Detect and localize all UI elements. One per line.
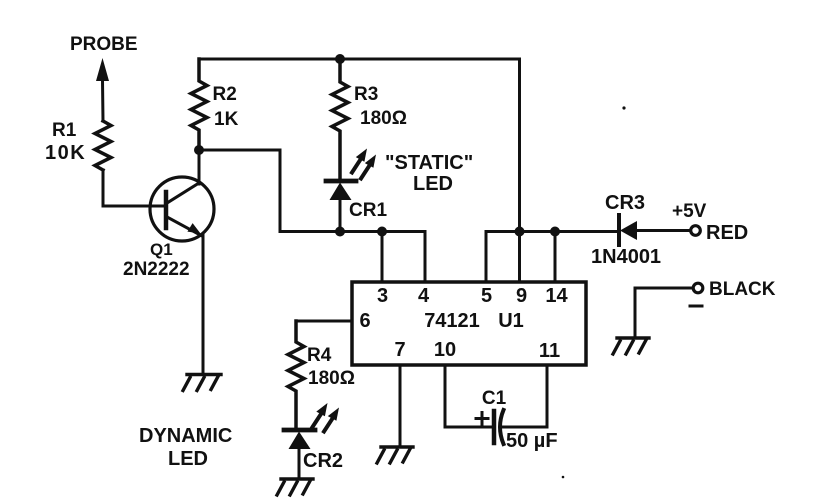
svg-text:R2: R2 — [213, 84, 237, 105]
ground (pin 7) — [377, 447, 413, 463]
svg-text:LED: LED — [168, 448, 208, 470]
diode CR3 — [619, 215, 689, 245]
svg-text:PROBE: PROBE — [70, 34, 138, 55]
svg-text:10: 10 — [434, 339, 456, 361]
svg-text:1K: 1K — [214, 109, 239, 130]
scan speck 1 — [622, 106, 625, 109]
node pin 3 junction — [377, 227, 387, 237]
svg-text:10K: 10K — [45, 142, 86, 164]
terminal RED (+5V) — [691, 226, 701, 236]
svg-text:7: 7 — [394, 339, 405, 361]
svg-text:R3: R3 — [354, 84, 378, 105]
svg-text:RED: RED — [706, 222, 748, 244]
resistor R3 — [332, 59, 348, 181]
wire pin 3 riser — [381, 232, 384, 283]
svg-text:LED: LED — [413, 173, 453, 195]
node R2/collector junction — [194, 145, 204, 155]
wire pin 5 riser — [485, 232, 488, 283]
svg-text:50 µF: 50 µF — [506, 430, 558, 452]
LED CR1 — [326, 181, 356, 232]
CR1 light emission arrows — [352, 149, 376, 179]
scan speck 2 — [562, 476, 565, 479]
svg-text:R4: R4 — [307, 345, 332, 366]
svg-text:+5V: +5V — [672, 201, 707, 222]
wire R1 to Q1 base — [103, 170, 166, 206]
ground (Q1 emitter) — [183, 375, 221, 391]
svg-text:1N4001: 1N4001 — [591, 246, 661, 268]
wire +V top rail — [199, 58, 519, 61]
svg-text:3: 3 — [377, 285, 388, 307]
resistor R4 — [288, 321, 304, 430]
svg-text:"STATIC": "STATIC" — [385, 152, 473, 174]
svg-text:BLACK: BLACK — [709, 279, 776, 300]
svg-text:CR2: CR2 — [303, 450, 343, 472]
op IC U1 74121 box — [352, 282, 586, 365]
ground (CR2) — [277, 479, 313, 495]
transistor Q1 — [150, 177, 214, 241]
wire Q1 emitter to ground — [202, 234, 205, 373]
wire pin 6 stub — [296, 320, 352, 323]
minus sign under BLACK — [690, 305, 702, 308]
node pin 14 junction — [550, 227, 560, 237]
wire Q1 collector — [198, 150, 201, 184]
svg-text:6: 6 — [359, 310, 370, 332]
node CR1 bottom junction — [335, 227, 345, 237]
resistor R1 — [95, 121, 111, 170]
node R3 top junction — [335, 54, 345, 64]
resistor R2 — [191, 59, 207, 150]
LED CR2 — [284, 430, 315, 478]
svg-text:5: 5 — [481, 285, 492, 307]
svg-text:2N2222: 2N2222 — [123, 259, 190, 280]
wire pin 10 to C1 — [445, 365, 491, 427]
wire +5V rail pins 5,9,14 to CR3 — [486, 230, 618, 233]
svg-text:C1: C1 — [482, 388, 507, 409]
svg-text:4: 4 — [418, 285, 430, 307]
svg-text:11: 11 — [539, 340, 560, 362]
svg-text:9: 9 — [516, 285, 527, 307]
svg-text:180Ω: 180Ω — [360, 108, 407, 129]
wire pin 7 to ground — [399, 365, 402, 446]
svg-text:R1: R1 — [52, 120, 77, 141]
terminal BLACK — [693, 283, 703, 293]
probe terminal arrow — [96, 58, 109, 121]
svg-text:74121: 74121 — [424, 310, 480, 332]
svg-text:Q1: Q1 — [150, 240, 173, 259]
node pin 9 junction — [515, 227, 525, 237]
wire top rail down to pin 9 — [518, 59, 521, 282]
CR2 light emission arrows — [313, 403, 340, 432]
svg-text:180Ω: 180Ω — [308, 368, 355, 389]
capacitor C1 — [476, 410, 504, 444]
wire BLACK to ground — [635, 288, 692, 337]
wire pin 14 riser — [554, 232, 557, 283]
wire collector node to pins 3,4 — [199, 150, 425, 282]
svg-text:U1: U1 — [498, 310, 524, 332]
svg-text:DYNAMIC: DYNAMIC — [139, 425, 232, 447]
svg-text:CR1: CR1 — [349, 200, 387, 221]
svg-text:CR3: CR3 — [605, 192, 645, 214]
ground (BLACK return) — [613, 338, 649, 354]
wire C1 to pin 11 — [503, 365, 547, 427]
svg-text:14: 14 — [545, 285, 568, 307]
